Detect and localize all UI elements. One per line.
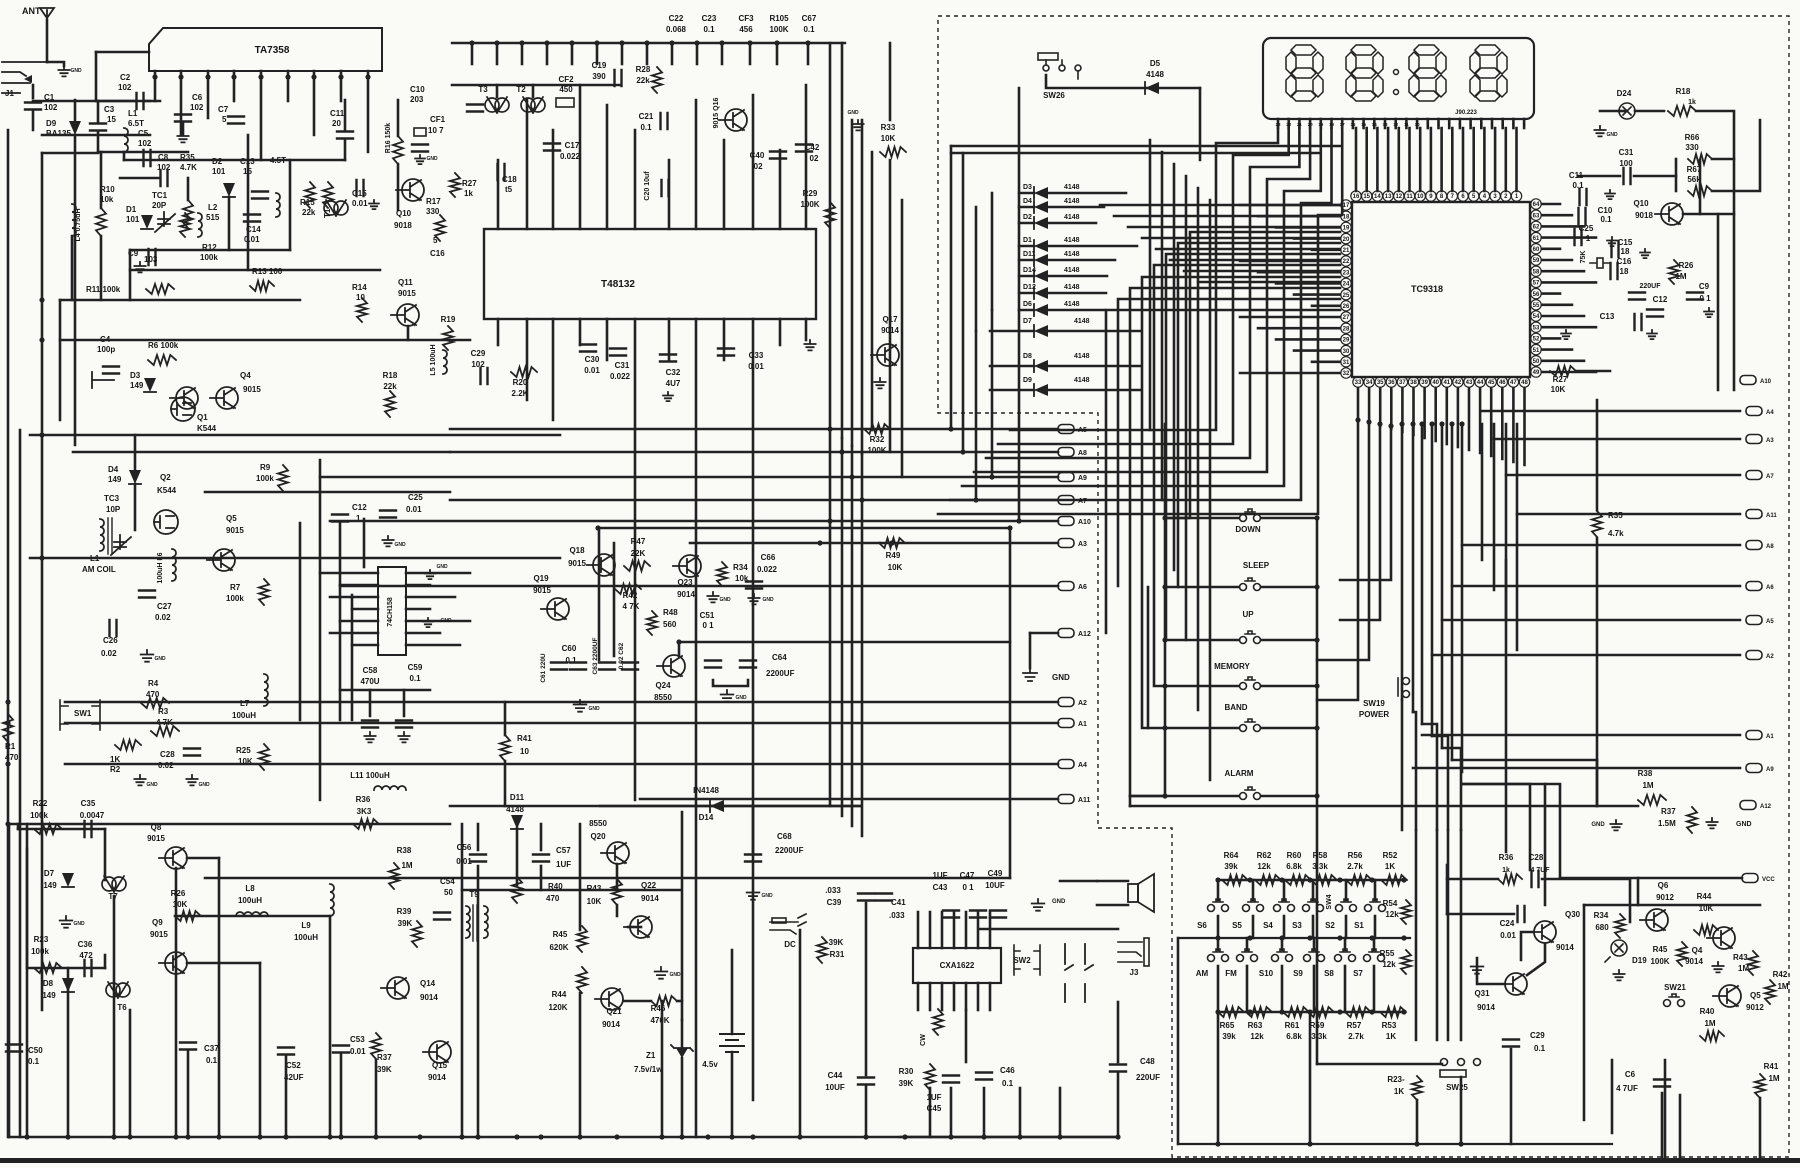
svg-text:34: 34 [1366, 380, 1373, 386]
junction keypad mid x1218 [1215, 935, 1220, 940]
wire D9 left [990, 389, 1034, 392]
wire TA7358 pin1 [154, 71, 157, 101]
switch S3 [1303, 899, 1324, 912]
junction bottom rail x341 [338, 1134, 343, 1139]
svg-text:0.022: 0.022 [610, 372, 631, 381]
fet Q1 gate bar [92, 372, 114, 388]
pin TC9318 right 59 [1531, 255, 1541, 265]
svg-text:DOWN: DOWN [1235, 525, 1261, 534]
junction bottom rail x376 [373, 1134, 378, 1139]
switch SW2 [1014, 945, 1040, 975]
pin TC9318 bottom 36 [1386, 377, 1396, 387]
scan edge line [0, 1158, 1800, 1163]
wire TC9318 right pin 55 [1542, 303, 1572, 306]
wire L4 down [71, 236, 74, 300]
wire alarm row ext [1130, 795, 1165, 798]
svg-text:25: 25 [1343, 293, 1350, 299]
wire R35r v [1596, 400, 1599, 510]
svg-text:680: 680 [1595, 923, 1609, 932]
wire long vertical 2 [851, 120, 854, 446]
wire S6 down [1217, 916, 1220, 938]
svg-text:R31: R31 [830, 950, 845, 959]
wire v376 bl [375, 1060, 378, 1137]
svg-text:C24: C24 [1500, 919, 1515, 928]
svg-text:Q20: Q20 [590, 832, 606, 841]
junction top bus x722 [719, 40, 724, 45]
svg-text:62: 62 [1533, 225, 1540, 231]
terminal right A11 [1746, 510, 1777, 520]
wire TC9318 left pin 25 [1294, 293, 1340, 296]
svg-text:16: 16 [1350, 122, 1356, 127]
wire CXA bot pin 5 [977, 983, 980, 1010]
svg-text:GND: GND [146, 782, 158, 788]
wire bus drop 13 [807, 43, 810, 64]
junction TA7358 pin7 [311, 74, 316, 79]
pin TC9318 right 50 [1531, 356, 1541, 366]
wire tab A4 [65, 763, 1058, 766]
IC 74CH158 [378, 567, 406, 655]
wire TC9318 right pin 62 [1542, 225, 1584, 228]
junction top bus x497 [494, 40, 499, 45]
svg-text:0.01: 0.01 [1500, 931, 1516, 940]
junction keypad top x1310 [1307, 877, 1312, 882]
resistor R35a [183, 200, 193, 228]
wire T48132 top pin 3 [579, 85, 582, 229]
junction bottom rail x219 [216, 1134, 221, 1139]
wire R46 to Z1 [677, 1000, 682, 1003]
wire F top [598, 527, 1010, 530]
wire left rail x20 [19, 430, 22, 1137]
resistor R31 [817, 937, 827, 963]
junction bottom rail x753 [750, 1134, 755, 1139]
svg-text:R32: R32 [870, 435, 885, 444]
wire UP left [1165, 639, 1239, 642]
svg-text:560: 560 [663, 620, 677, 629]
wire v219 bl [218, 858, 221, 1137]
wire r35 to row806 [1596, 760, 1599, 806]
wire TA7358 pin4 [233, 71, 236, 101]
svg-text:6.8k: 6.8k [1286, 1032, 1302, 1041]
svg-text:4148: 4148 [1064, 237, 1080, 244]
wire TC9318 left pin 31 [1312, 360, 1340, 363]
svg-text:12: 12 [1395, 194, 1402, 200]
switch SW21 [1664, 994, 1685, 1007]
svg-text:102: 102 [118, 83, 132, 92]
wire v1630 q30 [1629, 879, 1632, 922]
pin circle display 8 [1436, 191, 1446, 201]
junction btnbus right y686 [1314, 683, 1319, 688]
svg-text:23: 23 [1343, 270, 1350, 276]
switch S2 [1336, 899, 1357, 912]
capacitor C29a [481, 368, 488, 384]
wire bus drop 3 [546, 43, 549, 64]
capacitor C64a [705, 661, 721, 668]
junction left rail y764 [5, 761, 10, 766]
transistor Q5b [1713, 985, 1741, 1008]
wire display pin 10 [1373, 119, 1376, 128]
svg-text:16: 16 [1353, 194, 1360, 200]
svg-text:9015: 9015 [150, 930, 168, 939]
pin circle display 12 [1394, 191, 1404, 201]
wire right bundle 1 [1412, 424, 1415, 712]
ground C15 [1640, 249, 1650, 258]
antenna ANT [22, 6, 54, 20]
wire bundle mid 1 [841, 438, 844, 816]
terminal A2 [1058, 698, 1087, 708]
svg-text:R25: R25 [236, 746, 251, 755]
svg-text:39k: 39k [1224, 862, 1238, 871]
resistor R45 [577, 926, 587, 952]
junction tc bottom x1452 [1449, 421, 1454, 426]
svg-text:38: 38 [1410, 380, 1417, 386]
wire pin33 drop [1317, 420, 1358, 700]
capacitor C36 [85, 960, 92, 976]
crystal 75K [1590, 258, 1610, 268]
inductor L1 [124, 128, 128, 152]
wire display pin 12 [1394, 119, 1397, 128]
svg-text:CXA1622: CXA1622 [940, 961, 975, 970]
terminal A12 [1058, 629, 1091, 639]
wire display pin 16 [1437, 119, 1440, 128]
capacitor C61 [551, 663, 567, 670]
wire rt A8 [1462, 544, 1740, 547]
svg-text:C22: C22 [669, 14, 684, 23]
wire btn bus left [1164, 424, 1167, 796]
junction bottom rail x330 [327, 1134, 332, 1139]
resistor R7 [259, 579, 269, 605]
wire CXA top pin 0 [917, 912, 920, 948]
wire antenna to gnd tap [47, 62, 64, 66]
terminal A4 [1058, 760, 1087, 770]
resistor R22 [34, 824, 62, 834]
wire row y885 [462, 889, 680, 892]
wire D8 right [1048, 365, 1140, 368]
wire v478 [477, 824, 480, 850]
svg-text:C31: C31 [1619, 148, 1634, 157]
wire D7 left [990, 330, 1034, 333]
wire Q31 base [1477, 958, 1505, 984]
wire long vertical 1 [841, 43, 844, 438]
svg-text:1UF: 1UF [932, 871, 947, 880]
wire TC9318 left pin 21 [1312, 249, 1340, 252]
svg-text:39K: 39K [899, 1079, 914, 1088]
wire spk line [1060, 880, 1097, 883]
svg-text:S5: S5 [1232, 921, 1242, 930]
wire TC9318 right pin 50 [1542, 359, 1584, 362]
svg-text:UP: UP [1242, 610, 1254, 619]
resistor R26 [1669, 260, 1679, 284]
svg-text:0.02 C62: 0.02 C62 [618, 642, 625, 669]
wire v114 bl [113, 896, 116, 1137]
svg-text:Q10: Q10 [1633, 199, 1649, 208]
svg-text:C59: C59 [408, 663, 423, 672]
svg-text:POWER: POWER [1359, 710, 1389, 719]
junction top bus x750 [747, 40, 752, 45]
transistor Q4b [1707, 927, 1735, 950]
svg-text:1M: 1M [1738, 964, 1749, 973]
capacitor C30 [580, 345, 596, 352]
wire S10 v2 [1281, 966, 1284, 1012]
svg-text:CW: CW [920, 1034, 927, 1046]
resistor R23b [1412, 1076, 1422, 1100]
svg-text:4148: 4148 [1064, 198, 1080, 205]
wire right bundle 3 [1431, 424, 1434, 736]
wire DOWN right [1261, 517, 1317, 520]
svg-text:R65: R65 [1220, 1021, 1235, 1030]
wire into TA7358 left [95, 52, 98, 101]
svg-text:1k: 1k [464, 189, 473, 198]
capacitor C28m [184, 749, 200, 756]
wire display pin 7 [1341, 119, 1344, 128]
wire v1545 down [1544, 784, 1547, 905]
svg-text:R2: R2 [110, 765, 121, 774]
svg-text:SLEEP: SLEEP [1243, 561, 1270, 570]
wire bus drop 11 [749, 43, 752, 64]
terminal A8 [1058, 448, 1087, 458]
wire x60 v [59, 300, 62, 420]
resistor R32 [864, 424, 890, 434]
resistor R23 [34, 963, 62, 973]
transistor Q11 [391, 304, 419, 327]
wire tab A10 [330, 520, 1058, 523]
wire C28 right [1542, 878, 1630, 881]
svg-text:D1: D1 [1023, 237, 1032, 244]
ground C25 [1607, 237, 1617, 246]
svg-text:GND: GND [198, 782, 210, 788]
fet Q2 [154, 510, 178, 534]
capacitor C56 [470, 855, 486, 862]
svg-text:31: 31 [1343, 360, 1350, 366]
wire bundle v 5 [1209, 200, 1212, 780]
ground C9 [134, 262, 145, 272]
wire C3 [97, 101, 100, 123]
wire T2 up [532, 85, 535, 97]
svg-text:10K: 10K [1551, 385, 1566, 394]
svg-text:2200UF: 2200UF [766, 669, 795, 678]
svg-text:6.5T: 6.5T [128, 119, 144, 128]
wire matrix drop 976 [975, 331, 978, 500]
transistor Q21 [595, 988, 623, 1011]
diode D1 [141, 215, 153, 229]
svg-text:R11 100k: R11 100k [86, 285, 121, 294]
wire display pin 20 [1480, 119, 1483, 128]
svg-text:R63: R63 [1248, 1021, 1263, 1030]
wire R35 [187, 178, 190, 200]
capacitor C4 [103, 367, 119, 374]
wire display pin 17 [1448, 119, 1451, 128]
svg-text:0.1: 0.1 [640, 123, 652, 132]
resistor R37b [371, 1033, 381, 1059]
wire right bundle b 1 [1493, 424, 1496, 590]
wire C2 left [96, 100, 136, 103]
svg-text:C19: C19 [592, 61, 607, 70]
wire TA7358 pin9 [367, 71, 370, 152]
svg-text:S4: S4 [1263, 921, 1273, 930]
svg-text:A6: A6 [1766, 585, 1774, 591]
wire tab A12 [1030, 632, 1058, 635]
ground C64 [721, 690, 734, 702]
pin TC9318 right 49 [1531, 367, 1541, 377]
battery 4.5v [720, 1034, 744, 1052]
wire R23b drop [1416, 1100, 1419, 1144]
wire TC9318 bottom pin 45 [1490, 388, 1493, 456]
switch S9 [1304, 949, 1325, 962]
wire CXA bot pin 1 [929, 983, 932, 1010]
terminal A5 [1058, 425, 1087, 435]
svg-text:GND: GND [426, 156, 438, 162]
svg-text:S6: S6 [1197, 921, 1207, 930]
pin TC9318 29 [1341, 334, 1351, 344]
wire v300 [299, 523, 302, 720]
wire SLEEP right [1261, 586, 1317, 589]
wire display right pin 10 drop [1462, 128, 1465, 191]
ground caps cluster [574, 700, 587, 712]
svg-text:1K: 1K [1386, 1032, 1396, 1041]
switch S8 [1335, 949, 1356, 962]
svg-text:R20: R20 [513, 378, 528, 387]
svg-text:149: 149 [108, 475, 122, 484]
wire pin34 drop [1317, 423, 1369, 660]
svg-text:32: 32 [1343, 371, 1350, 377]
junction bottom rail x68 [65, 1134, 70, 1139]
wire T3 up [496, 85, 499, 97]
junction bottom rail x517 [514, 1134, 519, 1139]
pin TC9318 22 [1341, 256, 1351, 266]
svg-text:GND: GND [1052, 899, 1066, 905]
wire bundle elbow2 [1413, 712, 1416, 830]
wire bus drop 5 [596, 43, 599, 64]
svg-text:470K: 470K [650, 1016, 669, 1025]
wire c6 drop [1661, 1093, 1664, 1158]
svg-text:C7: C7 [218, 105, 229, 114]
wire c29 drop [1510, 1049, 1513, 1144]
inductor T9b [484, 906, 488, 938]
svg-text:R38: R38 [397, 846, 412, 855]
ground C27 [141, 650, 154, 662]
svg-text:R4: R4 [148, 679, 159, 688]
resistor R60 [1285, 875, 1311, 885]
svg-text:64: 64 [1533, 202, 1540, 208]
pin circle display 16 [1351, 191, 1361, 201]
svg-text:S3: S3 [1292, 921, 1302, 930]
junction bottom rail x541 [538, 1134, 543, 1139]
capacitor C21 [661, 113, 668, 129]
capacitor C35 [85, 821, 92, 837]
capacitor C59 [396, 721, 412, 728]
wire T48132 bot pin 5 [634, 319, 637, 800]
wire c31 left [1578, 175, 1620, 178]
svg-text:GND: GND [669, 972, 681, 978]
pin TC9318 right 62 [1531, 221, 1541, 231]
wire SW26 to D5 [1046, 75, 1200, 88]
svg-text:23: 23 [1275, 122, 1281, 127]
wire y929 speaker [980, 928, 1118, 931]
svg-text:R16 150k: R16 150k [385, 123, 392, 153]
pin TC9318 19 [1341, 222, 1351, 232]
wire S10 v [1281, 938, 1284, 950]
wire T48132 bot pin 2 [552, 319, 555, 420]
pin TC9318 bottom 48 [1519, 377, 1529, 387]
svg-text:44: 44 [1477, 380, 1484, 386]
wire v614 ext [613, 543, 616, 656]
wire v188 bl [187, 1050, 190, 1137]
resistor R27a [450, 173, 460, 197]
wire TA7358 pin8 [340, 71, 343, 101]
svg-text:1K: 1K [1385, 862, 1395, 871]
junction tc bottom x1380 [1377, 421, 1382, 426]
svg-text:R34: R34 [1594, 911, 1609, 920]
svg-text:9015: 9015 [568, 559, 586, 568]
svg-text:R23-: R23- [1387, 1075, 1405, 1084]
resistor R17 [435, 215, 445, 241]
svg-text:18: 18 [1621, 247, 1630, 256]
pin TC9318 bottom 37 [1397, 377, 1407, 387]
svg-text:C3: C3 [104, 105, 115, 114]
junction bottom rail x478 [475, 1134, 480, 1139]
wire bus drop 8 [671, 43, 674, 64]
svg-text:L5 100uH: L5 100uH [430, 344, 437, 375]
transformer T6 [106, 982, 130, 998]
junction bottom rail x286 [283, 1134, 288, 1139]
svg-text:A1: A1 [1766, 734, 1774, 740]
terminal right A4 [1746, 407, 1774, 417]
wire BAND right [1261, 727, 1317, 730]
svg-text:49: 49 [1533, 370, 1540, 376]
button BAND [1240, 719, 1261, 732]
wire x290 v [289, 160, 292, 250]
svg-text:2.2K: 2.2K [512, 389, 529, 398]
junction bottom rail x176 [173, 1134, 178, 1139]
transistor Q9 [159, 952, 187, 975]
wire matrix to TC9318 pin 0 [1100, 204, 1340, 207]
junction TA7358 pin9 [365, 74, 370, 79]
svg-text:IN4148: IN4148 [693, 786, 719, 795]
svg-text:Q5: Q5 [226, 514, 237, 523]
svg-text:D2: D2 [212, 157, 223, 166]
svg-text:470U: 470U [360, 677, 379, 686]
svg-text:A4: A4 [1766, 410, 1774, 416]
wire T48132 top pin 8 [723, 140, 726, 229]
resistor R9 [278, 465, 288, 491]
capacitor C1 [25, 103, 41, 110]
wire tab A6 [340, 585, 1058, 588]
svg-text:56: 56 [1533, 292, 1540, 298]
wire tab A9 [320, 476, 1058, 479]
wire bundle mid 0 [829, 430, 832, 806]
svg-text:22: 22 [1286, 122, 1292, 127]
wire T48132 bot pin 6 [668, 319, 671, 360]
capacitor C7 [228, 117, 244, 124]
svg-text:T6: T6 [117, 1003, 127, 1012]
wire S4 up [1283, 880, 1286, 900]
junction bottom rail x800 [797, 1134, 802, 1139]
junction tc bottom x1422 [1419, 421, 1424, 426]
wire display right pin 3 drop [1387, 128, 1390, 191]
wire matrix to TC9318 pin 4 [1156, 248, 1340, 251]
wire right v 1718 [1717, 214, 1720, 390]
svg-text:10: 10 [520, 747, 529, 756]
wire D9 down [74, 135, 77, 445]
svg-text:R45: R45 [1653, 945, 1668, 954]
wire display right pin 15 drop [1515, 128, 1518, 191]
button SLEEP [1240, 578, 1261, 591]
svg-text:C36: C36 [78, 940, 93, 949]
pin TC9318 bottom 33 [1353, 377, 1363, 387]
svg-text:R33: R33 [881, 123, 896, 132]
capacitor C6 [175, 115, 191, 122]
svg-text:A7: A7 [1766, 474, 1774, 480]
junction left rail y300 [39, 297, 44, 302]
